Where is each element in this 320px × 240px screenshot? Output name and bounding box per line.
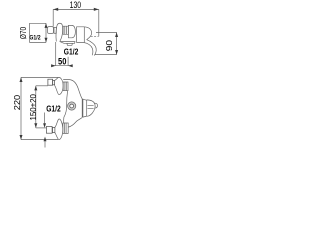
dimension 220 extension top <box>21 76 58 78</box>
dimension 90 extension top <box>96 31 117 33</box>
dimension 50 arrows <box>51 64 73 67</box>
dimension 50 extension lines <box>56 42 68 66</box>
body left outline <box>64 91 68 123</box>
dimension 130 arrows <box>53 8 99 11</box>
dimension 220 extension bottom <box>21 139 58 141</box>
body outer outline lower <box>68 118 82 127</box>
hub outer circle <box>68 102 76 110</box>
body top outline to handle <box>63 80 82 99</box>
svg-text:90: 90 <box>104 40 114 52</box>
lever cap <box>48 27 54 34</box>
extension line left of 130 <box>52 9 54 26</box>
hub inner circle <box>70 104 74 108</box>
upper inlet ring <box>53 80 55 84</box>
body block <box>63 26 68 34</box>
dimension 150+-20 extension top <box>36 85 48 87</box>
svg-text:130: 130 <box>70 0 82 10</box>
lower body block <box>63 123 68 133</box>
bell outer S-curve skirt <box>84 27 96 56</box>
body dome <box>56 23 63 41</box>
outlet tip <box>67 43 73 45</box>
dashed wall stub <box>91 35 99 37</box>
dimension 130 line <box>53 8 99 10</box>
upper body block <box>63 82 68 91</box>
dimension 90 arrows <box>115 32 118 54</box>
dia 70 dimension line (right edge of box) <box>45 23 47 42</box>
wall line / right extension of 130 <box>98 9 100 36</box>
bottom reference arrowhead <box>44 137 47 142</box>
outlet flange <box>60 42 75 44</box>
dia 70 arrows <box>45 23 48 42</box>
escutcheon box <box>30 23 46 42</box>
dimension 150+-20 arrows <box>34 86 37 128</box>
svg-text:G1/2: G1/2 <box>29 35 41 42</box>
lower inlet nut <box>46 127 52 134</box>
handle connectors <box>83 99 87 117</box>
dimension 90 line <box>116 32 118 54</box>
svg-text:G1/2: G1/2 <box>46 104 61 113</box>
dimension 150+-20 extension bottom <box>36 127 47 129</box>
handle button <box>95 103 98 108</box>
upper bell <box>54 77 63 94</box>
dimension 50 line <box>52 65 72 67</box>
handle grip lines <box>88 105 94 108</box>
handle plate <box>81 99 84 118</box>
dimension 150+-20 line <box>35 86 37 128</box>
svg-text:220: 220 <box>13 94 22 110</box>
bottom reference arrow <box>44 140 46 148</box>
leader arrow <box>43 123 46 128</box>
svg-text:G1/2: G1/2 <box>64 47 79 56</box>
dimension 220 arrows <box>20 77 23 139</box>
upper inlet nut <box>48 79 53 85</box>
ring <box>54 27 56 33</box>
lower bell <box>55 119 63 140</box>
capsule nut <box>68 25 75 37</box>
svg-text:Ø70: Ø70 <box>18 27 28 39</box>
bell inner skirt curve <box>84 43 93 56</box>
leader from G1/2 to lower nut <box>44 113 46 125</box>
svg-text:50: 50 <box>58 57 66 67</box>
dimension 90 extension bottom <box>95 54 117 56</box>
bell of top view <box>77 27 85 43</box>
dimension 220 line <box>20 77 22 139</box>
lower inlet ring <box>53 127 55 132</box>
handle dome <box>87 100 95 116</box>
svg-text:150±20: 150±20 <box>29 94 38 121</box>
